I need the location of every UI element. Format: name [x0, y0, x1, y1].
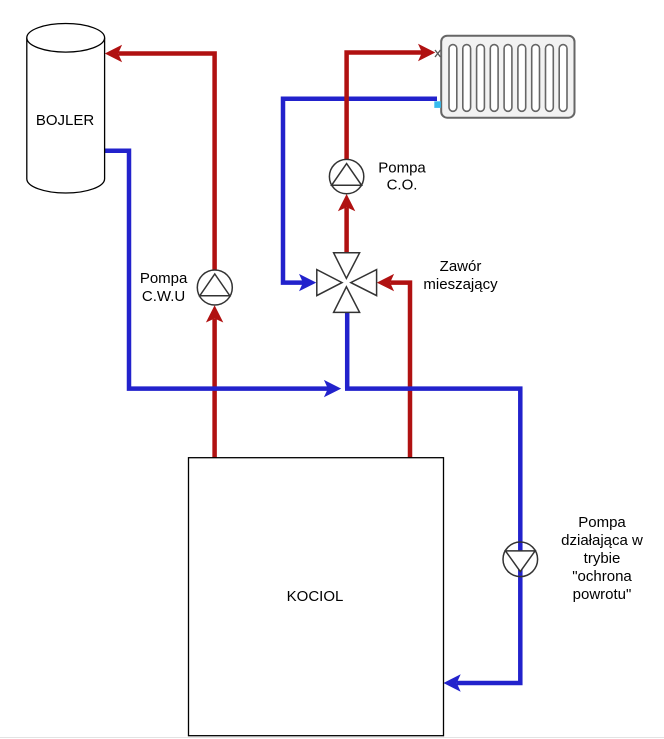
svg-text:BOJLER: BOJLER — [36, 112, 95, 129]
svg-text:mieszający: mieszający — [423, 276, 498, 293]
svg-text:KOCIOL: KOCIOL — [287, 588, 344, 605]
svg-text:powrotu": powrotu" — [573, 586, 632, 603]
svg-text:Pompa: Pompa — [140, 270, 188, 287]
svg-text:C.O.: C.O. — [387, 177, 418, 194]
svg-text:C.W.U: C.W.U — [142, 288, 185, 305]
svg-text:"ochrona: "ochrona — [572, 568, 632, 585]
svg-text:Pompa: Pompa — [378, 159, 426, 176]
svg-text:działająca w: działająca w — [561, 532, 643, 549]
svg-text:trybie: trybie — [584, 550, 621, 567]
svg-text:Zawór: Zawór — [440, 258, 482, 275]
svg-text:Pompa: Pompa — [578, 514, 626, 531]
